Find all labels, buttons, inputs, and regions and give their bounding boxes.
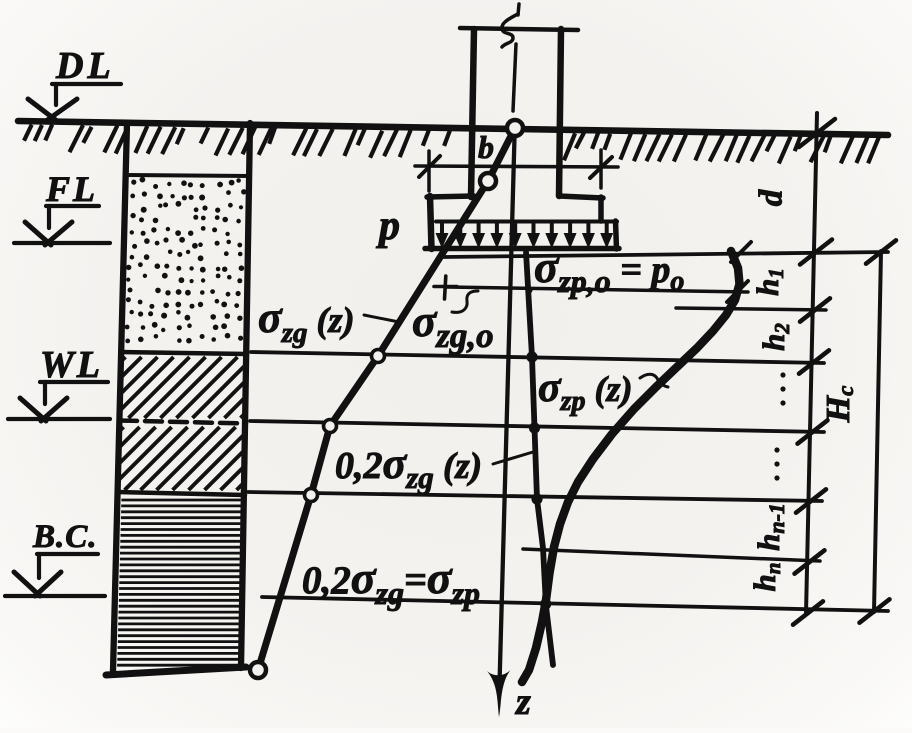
soil column separator 2 (122, 352, 247, 354)
FL elevation mark (14, 206, 110, 245)
footing base level line to dimension lines (444, 252, 888, 257)
svg-text:σzg (z): σzg (z) (258, 293, 355, 349)
0.2 sigma-zg line (526, 252, 553, 665)
soil column left edge (113, 123, 127, 671)
node ring at sigma-zg bottom (250, 662, 266, 678)
svg-text:d: d (754, 189, 790, 206)
tick at sigma-zp curve top (731, 242, 751, 262)
soil column right edge (241, 123, 250, 668)
layer boundary line L4 (248, 492, 822, 501)
load arrows p (436, 222, 614, 249)
footing right wall upper (598, 197, 604, 221)
ticks on Hc dimension line (860, 240, 897, 622)
b dimension line (415, 150, 618, 191)
footing left step (427, 196, 474, 197)
footing base (425, 246, 619, 252)
column right edge above ground (559, 29, 561, 196)
footing soffit line with load arrows (436, 220, 617, 224)
sigma-zp(z) label (538, 365, 633, 417)
pointer from sigma-zg(z) label (364, 315, 399, 322)
dots group 1 (780, 372, 785, 405)
layer boundary line L2 (251, 352, 824, 363)
soil column bottom edge (106, 667, 246, 675)
pointer from 0,2 sigma-zg(z) label (493, 452, 533, 464)
node circle at ground on axis (507, 120, 523, 136)
DL label (55, 45, 115, 87)
svg-text:B.C.: B.C. (32, 519, 98, 555)
dots group 2 (774, 447, 779, 480)
svg-text:z: z (514, 681, 531, 723)
z axis (500, 137, 515, 684)
WL elevation mark (8, 382, 110, 421)
svg-text:FL: FL (45, 169, 98, 209)
0,2 sigma-zg = sigma-zp label (302, 552, 480, 611)
b label (478, 129, 494, 165)
diagonal hatch upper (120, 357, 246, 418)
svg-text:0,2σzg (z): 0,2σzg (z) (335, 439, 482, 495)
horizontal-line soil texture (117, 500, 241, 665)
sigma-zg polyline (258, 128, 515, 670)
WL label (40, 344, 103, 386)
soil column water level (dashed) (120, 421, 246, 424)
sigma-zp,o = po label (534, 242, 684, 299)
cross tick sigma-zg,o (434, 276, 457, 299)
S pointer from sigma-zg,o label (452, 291, 478, 312)
layer boundary line L6 (Hc bottom) (262, 597, 888, 611)
svg-text:h1: h1 (750, 268, 788, 296)
svg-text:h2: h2 (756, 323, 794, 351)
layer boundary line L1 left part (447, 287, 748, 292)
layer boundary line L1 right part (676, 308, 826, 310)
nodes on 0.2 sigma-zg line (525, 286, 551, 609)
Hc dimension vertical line (874, 251, 881, 612)
svg-text:p: p (376, 203, 400, 249)
tick on curve at L1 (727, 281, 748, 302)
svg-text:hn-1: hn-1 (751, 503, 789, 551)
footing right step (559, 196, 603, 198)
d dimension label (rotated) (754, 189, 790, 206)
column above ground: top bar (460, 28, 578, 30)
p label (376, 203, 400, 249)
0,2 sigma-zg(z) label (335, 439, 482, 495)
FL label (45, 169, 98, 209)
diagonal hatch lower (118, 427, 244, 490)
sigma-zp curve (522, 251, 740, 682)
axis line above break (518, 4, 519, 15)
ground hatching (24, 125, 879, 164)
h n-1 label (751, 503, 789, 551)
svg-text:0,2σzg=σzp: 0,2σzg=σzp (302, 552, 480, 611)
sigma-zg(z) label (258, 293, 355, 349)
dotted soil texture (125, 177, 247, 344)
column left edge above ground (471, 29, 474, 197)
ticks on d/h dimension line (793, 119, 835, 625)
node circle on L2 (372, 350, 385, 363)
node circle on L4 (305, 489, 318, 502)
z axis label (514, 681, 531, 723)
Hc label (820, 386, 858, 424)
footing right wall lower (616, 221, 617, 249)
sigma-zg,o label (412, 296, 494, 355)
ground surface line (18, 121, 888, 135)
break squiggle (502, 14, 518, 47)
node circle on L3 (324, 420, 337, 433)
B.C. label (32, 519, 98, 555)
pointer from sigma-zp(z) label (640, 374, 668, 387)
h2 label (756, 323, 794, 351)
B.C. elevation mark (5, 554, 105, 596)
z axis arrowhead (487, 670, 511, 717)
h1 label (750, 268, 788, 296)
d / h dimension vertical line (806, 113, 817, 614)
svg-text:DL: DL (55, 45, 115, 87)
soil column separator 3 (118, 492, 245, 495)
layer boundary line L5 (523, 549, 820, 561)
axis line below break (513, 44, 516, 111)
soil column separator 1 (126, 175, 250, 176)
svg-text:b: b (478, 129, 494, 165)
svg-text:WL: WL (40, 344, 103, 386)
node circle below ground (480, 173, 496, 189)
h n label (747, 563, 785, 592)
footing left wall (430, 196, 432, 249)
svg-text:hn: hn (747, 563, 785, 592)
svg-text:σzp (z): σzp (z) (538, 365, 633, 417)
DL elevation mark (28, 84, 121, 121)
layer boundary line L3 (250, 421, 824, 432)
svg-text:σzg,o: σzg,o (412, 296, 494, 355)
svg-text:Hc: Hc (820, 386, 858, 424)
